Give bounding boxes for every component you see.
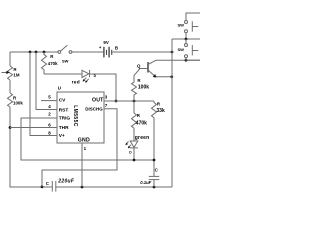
svg-text:470k: 470k xyxy=(136,120,147,126)
wire bottom rail right of C1 xyxy=(56,186,172,188)
node junction SW1/SW2 xyxy=(185,38,188,41)
svg-text:+: + xyxy=(99,45,102,50)
wire battery to right rail xyxy=(112,51,172,53)
svg-text:V+: V+ xyxy=(59,133,65,139)
node junction dot R4/R5 on OUT wire xyxy=(133,100,136,103)
pushbutton SW1 xyxy=(178,13,201,39)
resistor R5 33k xyxy=(152,101,165,176)
svg-text:GND: GND xyxy=(78,137,90,143)
svg-text:Q: Q xyxy=(137,63,141,68)
svg-text:green: green xyxy=(135,135,150,141)
battery B 9V xyxy=(99,40,118,57)
resistor R6 470k right xyxy=(132,101,148,141)
node junction green LED on TRIG net xyxy=(133,159,136,162)
wire battery negative to pushbutton chain xyxy=(172,38,200,40)
wire red LED branch from R3 xyxy=(44,73,82,75)
wire collector net to right edge xyxy=(186,59,200,61)
resistor R4 100k base xyxy=(132,69,150,102)
svg-text:U: U xyxy=(58,86,61,91)
capacitor C2 0.1uF xyxy=(140,167,159,187)
pin 5 CV stub xyxy=(41,100,57,102)
node junction dots on top rail xyxy=(29,51,32,54)
wire LED to OUT net xyxy=(90,74,116,101)
node junction dot cap left xyxy=(41,185,44,188)
svg-text:100k: 100k xyxy=(13,101,23,106)
transistor Q1 xyxy=(137,60,200,77)
op-amp U1 LM555C box xyxy=(57,86,104,144)
svg-text:1M: 1M xyxy=(13,73,19,78)
capacitor C1 220uF xyxy=(46,178,75,191)
wire left rail vertical bottom xyxy=(10,107,52,187)
node junction dot LED branch on OUT wire xyxy=(115,100,118,103)
svg-text:OUT: OUT xyxy=(92,97,104,103)
wire left rail between pot and resistor xyxy=(9,80,11,93)
pin 7 DISCHG wire xyxy=(42,109,117,187)
pin 2 TRIG wire xyxy=(21,118,154,160)
svg-text:red: red xyxy=(72,80,80,86)
svg-text:220uF: 220uF xyxy=(57,178,75,184)
pushbutton SW2 xyxy=(178,39,199,60)
svg-text:SW: SW xyxy=(178,47,185,52)
pin 6 THR wire xyxy=(10,127,57,129)
node THR junction on left rail xyxy=(9,126,12,129)
svg-text:LM555C: LM555C xyxy=(72,105,78,127)
svg-text:DISCHG: DISCHG xyxy=(85,107,103,112)
switch SW main toggle xyxy=(58,45,72,63)
node junction dot 0.1uF on bottom rail xyxy=(153,186,156,189)
wire top rail left segment xyxy=(10,51,59,53)
resistor R2 100k left xyxy=(8,93,24,107)
pin 3 OUT wire xyxy=(104,100,154,102)
wire RST branch x36 to pin 4 xyxy=(36,52,57,110)
svg-text:SW: SW xyxy=(178,22,185,27)
resistor R3 470k left xyxy=(42,52,59,74)
svg-text:9V: 9V xyxy=(103,40,108,45)
wire left rail vertical top xyxy=(9,52,11,66)
svg-text:CV: CV xyxy=(59,98,66,104)
potentiometer R1 1M xyxy=(2,66,20,80)
svg-text:0.1uF: 0.1uF xyxy=(140,180,151,185)
node collector/SW2 junction xyxy=(185,59,188,62)
pin 1 GND wire xyxy=(81,143,83,187)
svg-text:33k: 33k xyxy=(156,108,165,114)
wire V+ branch x30 to pin 8 xyxy=(30,52,57,136)
wire switch to battery xyxy=(72,51,104,53)
svg-text:470k: 470k xyxy=(48,61,58,66)
node junction dot GND pin1 on bottom rail xyxy=(81,186,84,189)
node junction TRIG net / 33k xyxy=(153,159,156,162)
svg-text:TRIG: TRIG xyxy=(59,115,71,121)
svg-text:RST: RST xyxy=(59,108,69,114)
wire green LED cathode to TRIG net xyxy=(133,148,135,160)
svg-text:SW: SW xyxy=(62,59,69,64)
node emitter junction on right rail xyxy=(170,75,173,78)
svg-text:B: B xyxy=(115,46,118,51)
LED D red xyxy=(72,70,97,86)
LED D green xyxy=(125,135,149,154)
wire right rail vertical xyxy=(171,39,173,187)
svg-text:100k: 100k xyxy=(138,84,149,90)
node junction right rail top xyxy=(171,51,174,54)
svg-text:THR: THR xyxy=(59,125,69,131)
